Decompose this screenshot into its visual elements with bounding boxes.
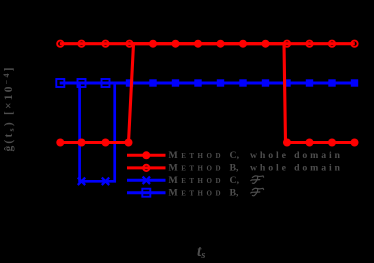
svg-text:B,: B, [230, 163, 240, 174]
row 3: Method C, F [127, 179, 166, 182]
row 4: Method B, F [127, 191, 166, 194]
row 1: Method C, whole domain [127, 154, 166, 157]
series C F: blue x markers with dip [60, 83, 355, 181]
svg-text:C,: C, [230, 150, 240, 161]
svg-text:B,: B, [230, 187, 240, 198]
legend [127, 150, 341, 198]
svg-text:C,: C, [230, 175, 240, 186]
series C whole domain: red filled circles with step [60, 44, 355, 143]
series B whole domain: red open circles, constant top [60, 42, 355, 45]
row 2: Method B, whole domain [127, 166, 166, 169]
series B F: blue open squares, constant [60, 82, 355, 85]
